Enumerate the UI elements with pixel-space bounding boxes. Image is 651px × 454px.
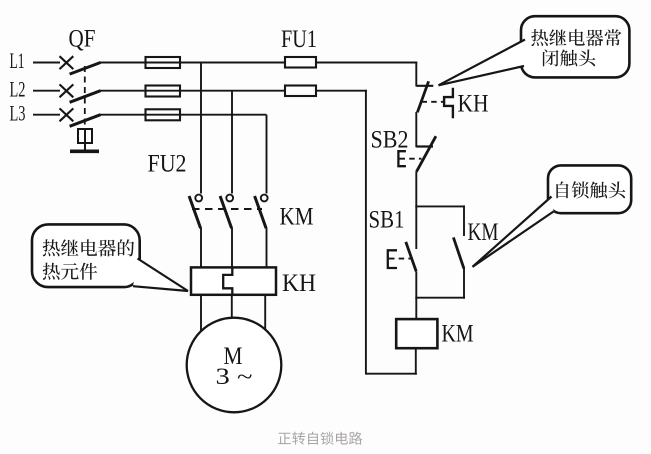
wire L2 FU1 to return corner [316,90,367,92]
pushbutton SB2 actuator E [398,151,406,166]
contactor KM main contact 1 terminal circle [195,195,202,202]
wire SB2 to branch [415,172,417,249]
wire L3 [99,114,267,116]
contactor KM coil [396,319,437,348]
breaker QF blade L3 [70,115,101,127]
callout text line 2 heater [43,263,60,280]
fuse FU2 element 3 [146,109,181,120]
wire L1 to FU1 [99,62,286,64]
wire control return vertical [365,90,367,374]
contactor KM main contact 3 blade [255,196,267,228]
svg-text:KM: KM [280,203,314,230]
wire below KM contact 3 [266,228,268,268]
wire below KM contact 2 [231,228,233,268]
contactor KM linkage dashed [192,208,262,210]
wire motor phase W [264,295,266,330]
thermal relay KH heater box [191,267,276,294]
svg-text:FU2: FU2 [148,151,187,178]
breaker QF mechanism stem [84,143,86,150]
callout bubble thermal relay NC contact [521,16,629,77]
wire KM contact 1 through box [200,265,202,268]
svg-text:KH: KH [282,270,316,297]
wire L1 lead-in [33,62,60,64]
callout text self-lock [556,182,568,199]
wire branch top horizontal [415,205,465,207]
wire SB1 to coil [415,271,417,320]
thermal relay KH heater jog [223,267,232,294]
fuse FU1 element 1 [285,57,316,68]
callout tail to KH contact [439,40,526,86]
thermal contact KH blade [417,81,428,112]
breaker QF mechanism box [78,129,92,143]
svg-text:FU1: FU1 [281,26,317,53]
fuse FU1 element 2 [285,86,316,97]
svg-text:SB1: SB1 [369,207,405,234]
contactor KM main contact 2 blade [220,196,232,228]
callout tail to KM aux contact [473,197,554,267]
wire drop phase U [200,63,202,194]
svg-text:KM: KM [468,219,499,246]
fuse FU2 element 1 [146,57,181,68]
breaker QF contact cross L3 [60,108,74,121]
callout bubble self-lock contact [548,165,631,213]
svg-text:KM: KM [442,321,474,348]
wire L1 FU1 to right corner [316,62,417,64]
breaker QF linkage dashed [84,66,86,129]
wire control phase right vertical top [415,62,417,87]
wire motor phase V [231,295,233,318]
breaker QF blade L2 [70,91,101,103]
pushbutton SB2 blade [416,136,436,172]
svg-text:L3: L3 [10,101,26,126]
wire coil to bottom [415,348,417,375]
pushbutton SB1 linkage dashed [389,258,411,260]
callout text line 1 heater [43,239,60,256]
wire below KM contact 1 [200,228,202,268]
wire L2 to FU1 [99,90,286,92]
contactor KM aux contact blade [453,237,464,268]
wire below KH contact [415,112,417,147]
contactor KM main contact 3 terminal circle [261,195,268,202]
pushbutton SB1 actuator E [388,250,397,268]
svg-text:L2: L2 [10,76,26,101]
callout bubble heater element [32,224,140,287]
wire L3 lead-in [33,114,60,116]
thermal contact KH linkage dashed [422,101,445,103]
motor M circle [187,318,282,413]
thermal contact KH actuator [444,88,453,119]
callout text line 1 [531,29,548,46]
callout tail to KH box [133,259,188,292]
thermal contact KH crossbar [416,85,433,87]
wire branch right vertical upper [463,205,465,236]
svg-text:3 ~: 3 ~ [216,364,253,389]
svg-text:QF: QF [69,25,96,52]
wire bottom return horizontal [365,373,417,375]
svg-text:L1: L1 [10,48,25,73]
wire L2 lead-in [33,90,60,92]
contactor KM main contact 1 blade [189,196,201,228]
breaker QF contact cross L1 [60,56,74,69]
contactor KM main contact 2 terminal circle [226,195,233,202]
svg-text:KH: KH [458,91,489,118]
fuse FU2 element 2 [146,86,181,97]
pushbutton SB1 blade [406,242,416,272]
wire branch right vertical lower [463,268,465,299]
pushbutton SB2 crossbar [416,145,433,147]
wire drop phase W [266,115,268,194]
wire drop phase V [231,91,233,194]
breaker QF contact cross L2 [60,84,74,97]
callout text line 2 [543,49,559,66]
breaker QF blade L1 [70,63,101,75]
breaker QF mounting bar [70,150,99,154]
caption title [278,433,291,444]
wire branch bottom horizontal [415,297,465,299]
wire motor phase U [200,295,202,331]
pushbutton SB2 linkage dashed [400,158,422,160]
svg-text:SB2: SB2 [371,127,409,154]
